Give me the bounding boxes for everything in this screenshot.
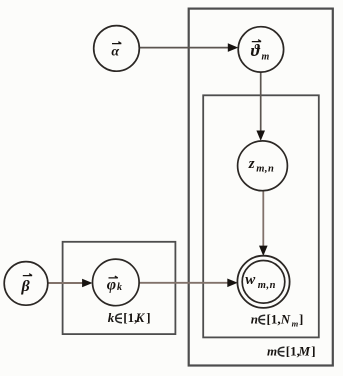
svg-text:[1,: [1, [267, 311, 281, 326]
plate K [63, 242, 176, 334]
svg-text:k: k [108, 310, 115, 325]
label m in [1,M] [267, 343, 316, 358]
node w (w_mn, observed double circle) [237, 256, 289, 308]
svg-text:α: α [111, 45, 119, 60]
svg-text:m: m [292, 318, 299, 328]
wire theta to z [256, 72, 265, 141]
wire z to w [259, 191, 268, 256]
plate N (inner plate) [203, 95, 319, 337]
svg-text:w: w [245, 272, 256, 288]
svg-text:β: β [21, 278, 31, 295]
node phi (phi_k) [93, 259, 140, 306]
svg-text:k: k [117, 282, 122, 293]
wire phi to w [139, 279, 238, 288]
wire alpha to theta [139, 43, 238, 52]
svg-text:]: ] [311, 343, 315, 358]
svg-text:K: K [135, 310, 146, 325]
wire beta to phi [48, 279, 93, 288]
svg-text:m: m [262, 52, 270, 63]
label n in [1,N_m] [251, 311, 304, 328]
node alpha [94, 26, 140, 72]
node beta [4, 262, 48, 306]
plate M (outer plate) [189, 9, 333, 366]
svg-text:ϑ: ϑ [251, 41, 261, 60]
svg-text:m: m [267, 343, 277, 358]
label k in [1,K] [108, 310, 151, 325]
node theta (vartheta_m) [238, 27, 283, 72]
svg-text:m,n: m,n [256, 164, 274, 175]
svg-text:]: ] [146, 310, 150, 325]
svg-text:φ: φ [107, 277, 116, 294]
svg-text:N: N [280, 311, 291, 326]
svg-text:]: ] [299, 311, 303, 326]
svg-text:M: M [298, 343, 311, 358]
svg-text:z: z [248, 156, 255, 172]
svg-text:n: n [251, 311, 258, 326]
node z (z_mn) [238, 141, 288, 191]
svg-text:m,n: m,n [258, 280, 276, 291]
